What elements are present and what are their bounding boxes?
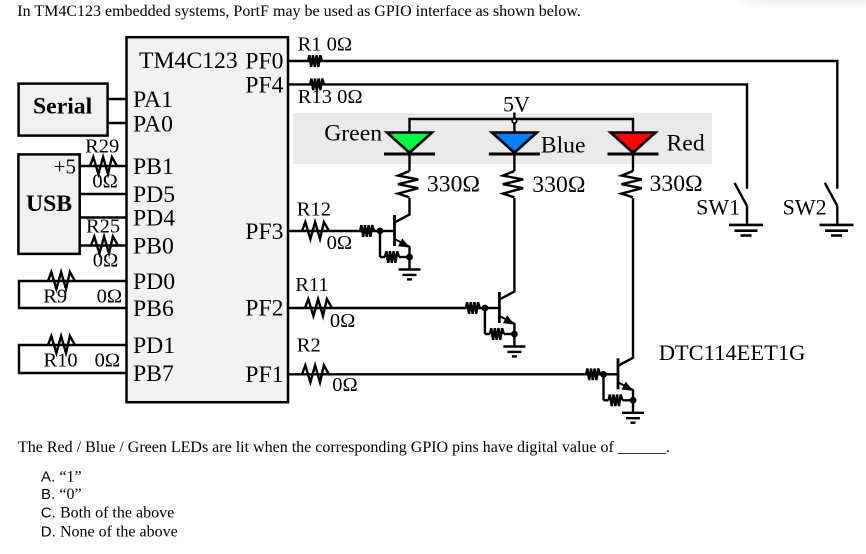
svg-text:D. None of the above: D. None of the above (41, 523, 178, 540)
svg-text:0Ω: 0Ω (327, 232, 353, 254)
svg-text:Red: Red (667, 131, 705, 157)
svg-text:PF2: PF2 (245, 296, 283, 322)
svg-text:The Red / Blue / Green LEDs ar: The Red / Blue / Green LEDs are lit when… (18, 439, 670, 456)
svg-text:PB6: PB6 (133, 296, 174, 322)
svg-text:330Ω: 330Ω (532, 172, 585, 198)
svg-text:PF4: PF4 (245, 73, 283, 99)
svg-text:Serial: Serial (33, 93, 93, 119)
svg-text:PD0: PD0 (133, 269, 175, 295)
svg-text:PB7: PB7 (133, 361, 174, 387)
svg-text:R2: R2 (297, 335, 321, 357)
svg-text:330Ω: 330Ω (650, 171, 703, 197)
svg-text:R1 0Ω: R1 0Ω (298, 34, 353, 56)
svg-text:DTC114EET1G: DTC114EET1G (659, 340, 806, 365)
svg-text:R13 0Ω: R13 0Ω (298, 86, 363, 108)
svg-text:USB: USB (26, 191, 72, 217)
svg-text:Blue: Blue (541, 132, 586, 158)
svg-text:0Ω: 0Ω (97, 286, 123, 308)
svg-text:A. “1”: A. “1” (41, 469, 82, 486)
svg-text:0Ω: 0Ω (332, 374, 358, 396)
svg-text:TM4C123: TM4C123 (139, 48, 238, 74)
svg-text:R11: R11 (295, 274, 328, 296)
svg-text:Green: Green (324, 120, 382, 146)
svg-text:+5: +5 (54, 155, 76, 179)
svg-text:PF3: PF3 (245, 219, 283, 245)
svg-text:PD5: PD5 (133, 182, 175, 208)
svg-text:PF0: PF0 (245, 49, 283, 75)
svg-text:0Ω: 0Ω (92, 171, 118, 193)
svg-text:R29: R29 (85, 136, 119, 158)
svg-text:0Ω: 0Ω (330, 310, 356, 332)
svg-text:PB1: PB1 (133, 154, 174, 180)
svg-text:B. “0”: B. “0” (41, 486, 82, 503)
svg-text:330Ω: 330Ω (427, 171, 480, 197)
svg-text:PF1: PF1 (245, 362, 283, 388)
svg-text:R25: R25 (86, 216, 120, 238)
svg-text:SW1: SW1 (696, 195, 740, 220)
svg-text:PD4: PD4 (133, 206, 175, 232)
svg-text:C. Both of the above: C. Both of the above (41, 505, 174, 522)
svg-text:PB0: PB0 (133, 234, 174, 260)
svg-text:In TM4C123 embedded systems, P: In TM4C123 embedded systems, PortF may b… (17, 3, 580, 20)
svg-text:0Ω: 0Ω (95, 350, 121, 372)
svg-text:PA0: PA0 (133, 112, 173, 138)
svg-text:R12: R12 (297, 199, 331, 221)
svg-text:0Ω: 0Ω (93, 250, 119, 272)
svg-text:R10: R10 (44, 350, 78, 372)
svg-text:PA1: PA1 (133, 87, 173, 113)
svg-text:PD1: PD1 (133, 333, 175, 359)
svg-text:SW2: SW2 (783, 194, 827, 219)
svg-text:R9: R9 (43, 286, 67, 308)
svg-text:5V: 5V (503, 92, 530, 117)
